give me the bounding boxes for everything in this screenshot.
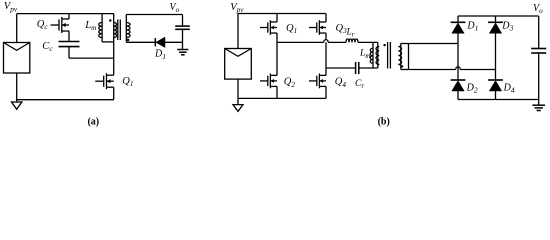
svg-text:Q1: Q1 [286,23,297,35]
svg-text:Q2: Q2 [284,77,296,89]
svg-text:Vo: Vo [170,2,180,14]
svg-text:Cc: Cc [42,41,53,53]
svg-text:Lm: Lm [359,49,370,60]
svg-text:Vpv: Vpv [4,1,18,13]
svg-text:Q1: Q1 [122,76,133,88]
svg-text:Cr: Cr [355,79,364,90]
svg-text:Qc: Qc [37,19,49,31]
svg-text:D3: D3 [501,20,513,32]
svg-text:Vo: Vo [533,3,543,15]
svg-text:Vpv: Vpv [230,2,244,14]
svg-text:(a): (a) [87,117,99,128]
svg-text:D1: D1 [466,20,478,32]
svg-text:Lm: Lm [84,20,96,32]
svg-text:Q3: Q3 [336,23,348,35]
svg-text:(b): (b) [378,117,390,128]
svg-text:D4: D4 [503,83,515,95]
svg-text:Q4: Q4 [335,77,347,89]
svg-text:D2: D2 [466,83,478,95]
svg-text:D1: D1 [154,49,166,61]
svg-text:Lr: Lr [346,28,355,39]
